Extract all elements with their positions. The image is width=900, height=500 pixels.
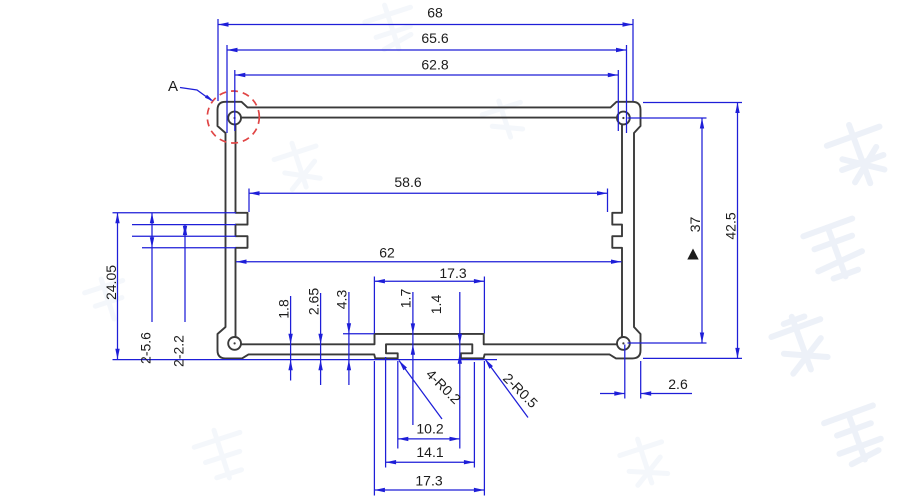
svg-text:17.3: 17.3: [415, 473, 442, 489]
dim 62.8 ext lines: [235, 70, 619, 131]
arrow 1.4 upper: [458, 334, 462, 345]
arrow 68 right: [623, 22, 634, 26]
arrow 2.6 left: [614, 391, 625, 395]
dim 65.6 ext lines: [227, 45, 627, 133]
arrow 62.8 right: [608, 73, 619, 77]
arrow leader 4-R0.2 arrow: [399, 361, 407, 371]
inner cavity: top wall inner surface: [241, 117, 617, 119]
arrow 17.3 bottom right: [474, 488, 485, 492]
dim 14.1 line: [386, 461, 475, 463]
arrow 37 bottom: [700, 333, 704, 344]
arrow 62 right: [611, 260, 622, 264]
arrow 68 left: [218, 22, 229, 26]
dim 65.6 line: [227, 49, 627, 51]
svg-text:1.4: 1.4: [428, 295, 444, 315]
dim 42.5 line: [737, 103, 739, 359]
leader 2-R0.5: [485, 359, 528, 418]
svg-text:62: 62: [379, 245, 395, 261]
dim 2.6 ext lines: [625, 345, 641, 399]
svg-text:58.6: 58.6: [394, 174, 421, 190]
arrow 10.2 left: [398, 437, 409, 441]
arrow 2.65 upper: [318, 334, 322, 345]
arrow 65.6 left: [227, 48, 238, 52]
dim 24.05 line: [117, 213, 119, 359]
svg-text:65.6: 65.6: [421, 30, 448, 46]
dim 37 ext lines: [628, 118, 707, 343]
dim 17.3 bottom ext lines: [374, 361, 484, 496]
dim 62 line: [236, 261, 622, 263]
screw hole center marks: [234, 117, 625, 345]
dim 58.6 line: [249, 192, 608, 194]
arrow 1.8 upper: [288, 334, 292, 345]
ext line bump top left: [343, 333, 374, 335]
dim 68 line: [218, 24, 633, 26]
ext line bottom long: [113, 359, 498, 361]
outer outline of extrusion with corner bosses and bottom channel: [218, 102, 641, 359]
arrow 24.05 bottom: [115, 349, 119, 360]
svg-text:37: 37: [687, 217, 703, 233]
ext line notch top / 24.05 top: [113, 212, 237, 214]
arrow 14.1 right: [464, 460, 475, 464]
screw boss hole top-right: [617, 112, 630, 125]
svg-text:2.6: 2.6: [668, 376, 688, 392]
dim 14.1 ext lines: [386, 357, 475, 468]
datum triangle: [687, 249, 698, 260]
arrow 1.4 lower: [458, 353, 462, 364]
arrow 58.6 right: [597, 191, 608, 195]
arrow 62 left: [236, 260, 247, 264]
svg-text:42.5: 42.5: [723, 212, 739, 239]
dim 10.2 line: [398, 438, 460, 440]
dim 17.3 top line: [374, 280, 484, 282]
dim 2-5.6 line: [151, 213, 153, 322]
dim 68 ext lines: [218, 19, 633, 101]
screw boss hole top-left: [228, 112, 241, 125]
svg-text:17.3: 17.3: [439, 265, 466, 281]
inner cavity: left wall with two PCB slot tabs: [236, 124, 248, 337]
svg-text:1.8: 1.8: [276, 299, 292, 319]
arrow leader 2-R0.5 arrow: [485, 359, 493, 369]
arrow 2.6 right: [641, 391, 652, 395]
dim 2.65 line: [320, 293, 322, 385]
leader 4-R0.2: [399, 361, 442, 420]
arrow 17.3 top left: [374, 279, 385, 283]
svg-text:10.2: 10.2: [416, 421, 443, 437]
arrow 10.2 right: [450, 437, 461, 441]
dim 17.3 top ext lines: [374, 277, 484, 334]
dim 2-2.2 line: [184, 225, 186, 322]
red detail circle A: [207, 91, 259, 143]
arrow 65.6 right: [616, 48, 627, 52]
arrow 2-5.6 top: [150, 213, 154, 224]
arrow 2.65 lower: [318, 360, 322, 371]
arrow 24.05 top: [115, 213, 119, 224]
dim 1.4 line and 10.2 right ext: [459, 292, 461, 449]
screw boss hole bottom-left: [228, 337, 241, 350]
svg-text:24.05: 24.05: [103, 265, 119, 300]
svg-text:2-R0.5: 2-R0.5: [500, 370, 541, 411]
leader A: [180, 88, 212, 101]
dim 62.8 line: [235, 74, 619, 76]
svg-text:68: 68: [427, 5, 443, 21]
svg-text:4.3: 4.3: [334, 290, 350, 310]
dim 1.8 line: [290, 296, 292, 381]
ext lines notches: [132, 225, 236, 248]
screw boss hole bottom-right: [617, 337, 630, 350]
arrow 4.3 lower: [347, 360, 351, 371]
arrow 17.3 bottom left: [374, 488, 385, 492]
inner cavity: bottom wall inner surface with raised center bump: [241, 334, 617, 344]
svg-text:62.8: 62.8: [421, 57, 448, 73]
arrow 1.7 upper: [411, 323, 415, 334]
dim 58.6 ext lines: [249, 189, 608, 213]
watermark: [767, 115, 896, 468]
arrow 1.7 lower: [411, 344, 415, 355]
arrow 2-2.2 top: [183, 225, 187, 236]
dim 10.2 left ext: [397, 361, 399, 449]
dim 42.5 ext lines: [643, 103, 742, 359]
arrow 58.6 left: [249, 191, 260, 195]
arrow 42.5 bottom: [735, 348, 739, 359]
arrow 2-5.6 bottom: [150, 237, 154, 248]
arrow 42.5 top: [735, 103, 739, 114]
dim 4.3 line: [348, 292, 350, 385]
arrow 62.8 left: [235, 73, 246, 77]
svg-text:2-2.2: 2-2.2: [171, 335, 187, 367]
inner cavity: right wall with two PCB slot tabs: [612, 124, 622, 337]
arrow 1.8 lower: [288, 360, 292, 371]
svg-text:2.65: 2.65: [306, 288, 322, 315]
dim 17.3 bottom line: [374, 489, 484, 491]
svg-text:14.1: 14.1: [416, 444, 443, 460]
dim 2.6 lines: [600, 393, 692, 395]
arrow 4.3 upper: [347, 323, 351, 334]
arrow 37 top: [700, 118, 704, 129]
svg-text:A: A: [168, 78, 178, 95]
arrow 17.3 top right: [474, 279, 485, 283]
svg-text:2-5.6: 2-5.6: [138, 332, 154, 364]
svg-text:1.7: 1.7: [398, 289, 414, 309]
dim 37 line: [701, 118, 703, 343]
arrow 14.1 left: [386, 460, 397, 464]
dim 1.7 line: [412, 292, 414, 425]
arrow 2-2.2 bottom: [183, 226, 187, 237]
